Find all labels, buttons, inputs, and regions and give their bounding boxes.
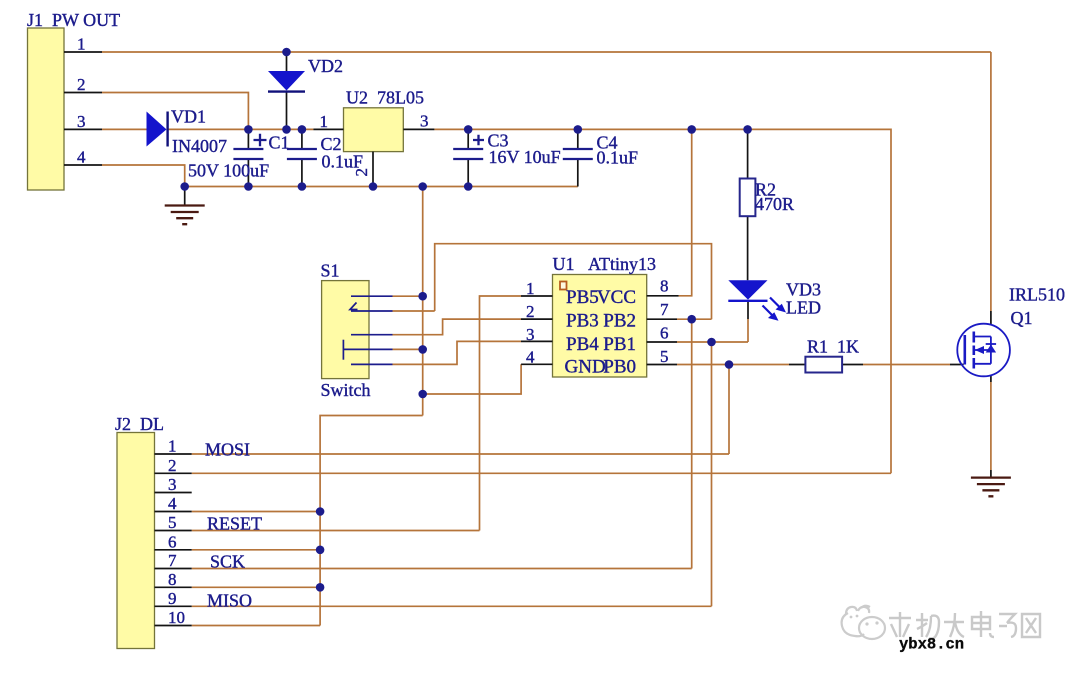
- wire 5V rail: [434, 129, 891, 473]
- J1 pin numbers: [77, 35, 86, 167]
- wire J2 pin9 MISO row: [192, 605, 712, 607]
- svg-text:7: 7: [168, 551, 177, 570]
- connector J2 body: [117, 433, 155, 649]
- wire J2 pin8 row: [192, 586, 320, 588]
- svg-text:9: 9: [168, 589, 177, 608]
- capacitor C3 plates: [453, 135, 484, 159]
- R2 leads: [747, 129, 749, 280]
- wire J2 pin7 SCK row: [192, 568, 692, 570]
- wire Q1 drain vertical: [990, 52, 992, 311]
- J2 pin numbers: [168, 437, 185, 628]
- svg-text:6: 6: [660, 324, 669, 343]
- svg-text:VD1: VD1: [171, 107, 206, 127]
- svg-text:4: 4: [526, 348, 535, 367]
- svg-text:3: 3: [77, 112, 86, 131]
- wire U1 pin5 to R1: [677, 364, 789, 366]
- svg-text:IRL510: IRL510: [1009, 285, 1065, 305]
- wire SCK vertical: [691, 319, 693, 568]
- svg-text:2: 2: [168, 456, 177, 475]
- watermark chinese text: [889, 611, 1040, 639]
- svg-text:Switch: Switch: [321, 380, 371, 400]
- svg-text:3: 3: [526, 325, 535, 344]
- wire ground row: [185, 186, 578, 188]
- wire S1 button pin: [393, 348, 423, 350]
- svg-text:PB3: PB3: [566, 311, 599, 332]
- svg-text:R1 1K: R1 1K: [807, 337, 859, 357]
- svg-text:PB0: PB0: [603, 357, 636, 378]
- U1 port names: [565, 287, 637, 378]
- switch S1 body: [322, 281, 369, 379]
- svg-text:ybx8.cn: ybx8.cn: [899, 636, 964, 654]
- wire J1 pin3 to VD1 anode: [102, 128, 147, 130]
- svg-text:8: 8: [168, 570, 177, 589]
- svg-text:IN4007: IN4007: [172, 136, 227, 156]
- IC U1 body: [553, 275, 647, 378]
- svg-text:1: 1: [168, 437, 177, 456]
- svg-text:VD3: VD3: [786, 280, 821, 300]
- wire MOSI vertical: [728, 365, 730, 455]
- svg-text:1: 1: [526, 279, 535, 298]
- svg-text:U1 ATtiny13: U1 ATtiny13: [553, 254, 657, 274]
- wire U1 pin8 to 5V: [679, 129, 692, 295]
- wire J1 pin2 to C1 node: [102, 93, 248, 130]
- svg-text:2: 2: [526, 302, 535, 321]
- wire U1 pin6 to VD3: [677, 341, 748, 343]
- wire net 12V top rail: [102, 51, 991, 53]
- svg-text:3: 3: [168, 475, 177, 494]
- wire PB2 upper run: [435, 244, 712, 320]
- svg-text:PB1: PB1: [603, 334, 636, 355]
- svg-text:470R: 470R: [755, 194, 794, 214]
- svg-text:1: 1: [77, 35, 86, 54]
- J2 pin stubs: [155, 454, 192, 626]
- svg-text:MISO: MISO: [207, 591, 252, 611]
- wire gnd to U1 pin4: [423, 364, 521, 394]
- svg-text:4: 4: [168, 494, 177, 513]
- Q1 stubs: [950, 311, 991, 478]
- ground (J1): [165, 206, 205, 225]
- svg-text:7: 7: [660, 300, 669, 319]
- svg-text:50V 100uF: 50V 100uF: [188, 161, 269, 181]
- svg-text:SCK: SCK: [210, 552, 245, 572]
- watermark logo: [842, 606, 885, 639]
- svg-text:RESET: RESET: [207, 514, 262, 534]
- svg-text:J2 DL: J2 DL: [115, 414, 164, 434]
- capacitor C1 plates: [233, 134, 266, 159]
- svg-text:GND: GND: [565, 357, 606, 378]
- wire S1 pinB: [393, 310, 435, 312]
- J1 pin stubs: [64, 52, 102, 165]
- svg-text:6: 6: [168, 532, 177, 551]
- resistor R2: [740, 179, 756, 217]
- svg-text:8: 8: [660, 277, 669, 296]
- wire R1 to Q1 gate: [863, 364, 950, 366]
- wire J2 pin1 MOSI row: [192, 453, 729, 455]
- wire J2 pin6 row: [192, 549, 320, 551]
- wire J1 pin4 to ground node: [102, 165, 185, 187]
- svg-text:5: 5: [168, 513, 177, 532]
- VD2 leads: [286, 52, 288, 129]
- VD3 lower lead: [747, 301, 749, 319]
- svg-text:10: 10: [168, 608, 185, 627]
- svg-text:MOSI: MOSI: [205, 440, 250, 460]
- svg-text:2: 2: [352, 168, 371, 177]
- LED VD3: [728, 280, 786, 321]
- svg-text:U2 78L05: U2 78L05: [346, 88, 424, 108]
- transistor Q1: [957, 324, 1010, 377]
- svg-text:LED: LED: [786, 298, 821, 318]
- U1 pin stubs: [521, 296, 679, 365]
- svg-text:PB5: PB5: [566, 287, 599, 308]
- svg-text:16V 10uF: 16V 10uF: [489, 147, 561, 167]
- svg-text:C1: C1: [269, 133, 290, 153]
- connector J1 body: [28, 28, 65, 190]
- wire J2 pin10 row: [192, 625, 320, 627]
- wire S1 pinE to U1 pin3: [393, 341, 522, 364]
- wire gnd vertical x422: [422, 187, 424, 416]
- svg-text:VCC: VCC: [597, 287, 636, 308]
- wire S1 pinC to U1 pin2: [393, 319, 522, 335]
- svg-text:Q1: Q1: [1011, 308, 1033, 328]
- C3 leads: [467, 129, 469, 186]
- J1 ground stem: [184, 187, 186, 206]
- svg-text:PB4: PB4: [566, 334, 599, 355]
- ground (Q1 source): [971, 478, 1011, 497]
- wire gnd step to J2 column: [320, 416, 423, 626]
- C4 leads: [577, 129, 579, 186]
- wire J2 pin5 RESET row: [192, 530, 480, 532]
- svg-text:4: 4: [77, 148, 86, 167]
- wire U1 pin1 RESET vertical: [480, 296, 522, 531]
- svg-text:1: 1: [320, 112, 329, 131]
- wire VD1 cathode to U2 pin1: [167, 128, 313, 130]
- svg-text:5: 5: [660, 347, 669, 366]
- diode VD1: [147, 112, 168, 147]
- svg-text:S1: S1: [321, 261, 340, 281]
- capacitor C2 plates: [287, 149, 317, 159]
- svg-text:0.1uF: 0.1uF: [597, 148, 639, 168]
- S1 switch internals: [343, 296, 392, 364]
- svg-text:VD2: VD2: [308, 56, 343, 76]
- regulator U2 body: [344, 108, 404, 152]
- svg-text:2: 2: [77, 75, 86, 94]
- svg-text:3: 3: [420, 112, 429, 131]
- svg-text:J1 PW OUT: J1 PW OUT: [27, 10, 120, 30]
- diode VD2: [268, 71, 305, 92]
- wire U1 pin7: [677, 318, 712, 320]
- capacitor C4 plates: [563, 149, 593, 159]
- R1 right lead: [789, 364, 863, 366]
- wire Q1 source: [990, 382, 992, 470]
- C1 leads: [247, 129, 249, 186]
- wire S1 pinA: [393, 295, 423, 297]
- wire J2 pin4 row: [192, 511, 320, 513]
- U1 pin1 marker: [560, 282, 567, 290]
- U2 pin stubs: [313, 129, 434, 186]
- wire J2 pin2 VCC row: [192, 472, 891, 474]
- U1 pin numbers: [526, 277, 669, 367]
- wire MISO vertical: [711, 342, 713, 606]
- resistor R1: [805, 357, 842, 373]
- C2 leads: [301, 129, 303, 186]
- svg-text:PB2: PB2: [603, 311, 636, 332]
